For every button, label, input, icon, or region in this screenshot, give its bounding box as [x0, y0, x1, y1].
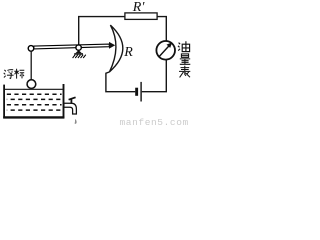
battery short thick plate (negative) — [135, 88, 138, 96]
label 标 (hand-drawn strokes) — [14, 69, 24, 79]
rheostat R arc body — [110, 25, 123, 72]
wire from R' right side down to meter — [157, 17, 166, 42]
label 浮 (hand-drawn strokes) — [4, 70, 14, 79]
float ball — [27, 80, 36, 89]
wire from meter bottom down and left to battery — [142, 60, 167, 92]
lever bar — [34, 44, 110, 49]
rod from lever to float — [30, 51, 32, 80]
svg-text:manfen5.com: manfen5.com — [120, 117, 189, 128]
pivot pin — [76, 45, 81, 50]
liquid dashes row 2 — [7, 98, 62, 100]
meter needle arrowhead — [167, 42, 173, 48]
water drop under faucet — [75, 119, 77, 124]
fulcrum triangle — [75, 50, 82, 53]
faucet handle stem — [71, 99, 73, 104]
faucet handle cap — [68, 97, 76, 101]
fulcrum hatching — [73, 55, 86, 58]
svg-text:R: R — [123, 45, 133, 60]
wire from wiper pivot up and right to R' — [79, 17, 125, 46]
label 量 (hand-drawn strokes) — [180, 54, 191, 64]
svg-text:R′: R′ — [132, 0, 146, 15]
label 油 (hand-drawn strokes) — [178, 41, 190, 51]
tank left wall — [3, 85, 5, 119]
meter (oil gauge) body — [156, 41, 175, 60]
wire from battery left to rheostat bottom end — [106, 72, 135, 92]
label 表 (hand-drawn strokes) — [179, 66, 190, 78]
left pin joint of lever — [28, 46, 34, 52]
resistor R' — [125, 13, 157, 20]
wiper arrowhead — [109, 42, 115, 49]
liquid dashes row 1 — [7, 93, 62, 95]
fulcrum base bar — [74, 53, 83, 55]
faucet tube with down spout — [64, 103, 77, 114]
liquid dashes row 3 — [7, 104, 62, 106]
tank right wall — [63, 84, 65, 118]
float ball redrawn over surface — [27, 80, 36, 89]
tank bottom — [3, 116, 64, 118]
liquid surface line — [5, 88, 63, 90]
liquid dashes row 4 — [7, 109, 62, 111]
meter needle — [159, 46, 169, 57]
battery long thin plate (positive) — [140, 82, 141, 102]
